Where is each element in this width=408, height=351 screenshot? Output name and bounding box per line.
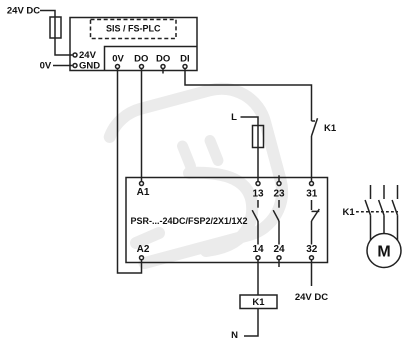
svg-text:31: 31	[306, 188, 318, 199]
svg-text:DO: DO	[134, 53, 148, 64]
svg-text:0V: 0V	[112, 53, 124, 64]
svg-text:32: 32	[306, 244, 318, 255]
svg-text:M: M	[377, 243, 390, 260]
svg-text:24V: 24V	[79, 50, 97, 61]
svg-text:0V: 0V	[40, 61, 52, 72]
svg-text:A2: A2	[137, 244, 150, 255]
svg-text:14: 14	[252, 244, 264, 255]
svg-text:N: N	[231, 330, 238, 341]
svg-text:K1: K1	[343, 207, 356, 218]
svg-text:GND: GND	[79, 61, 100, 72]
svg-text:DO: DO	[156, 53, 170, 64]
svg-text:24V DC: 24V DC	[295, 292, 328, 303]
svg-text:24: 24	[273, 244, 285, 255]
svg-text:K1: K1	[324, 123, 337, 134]
svg-text:L: L	[231, 112, 237, 123]
svg-text:23: 23	[273, 188, 285, 199]
svg-text:DI: DI	[180, 53, 190, 64]
svg-text:A1: A1	[137, 187, 150, 198]
svg-text:PSR-...-24DC/FSP2/2X1/1X2: PSR-...-24DC/FSP2/2X1/1X2	[131, 216, 248, 226]
svg-text:13: 13	[252, 188, 264, 199]
svg-text:24V DC: 24V DC	[7, 6, 40, 17]
svg-text:SIS / FS-PLC: SIS / FS-PLC	[106, 23, 161, 33]
svg-text:K1: K1	[252, 297, 265, 308]
